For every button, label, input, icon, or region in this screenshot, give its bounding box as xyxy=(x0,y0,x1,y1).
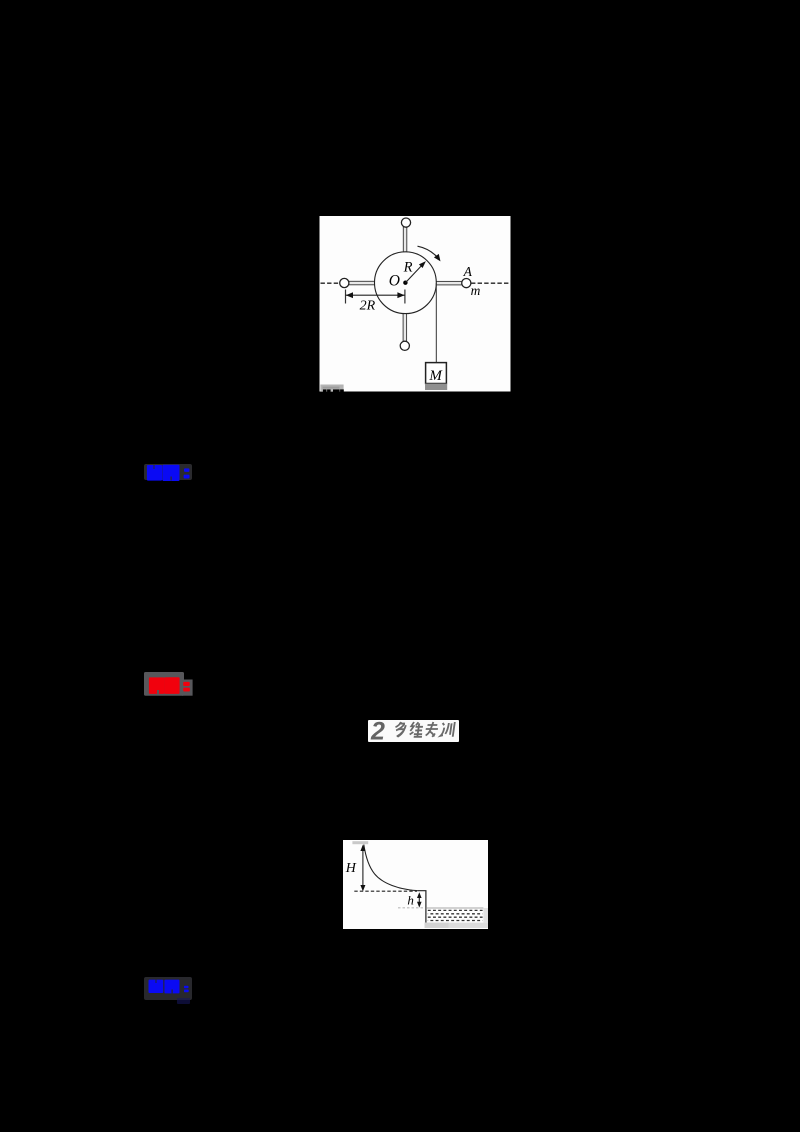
2R dimension right tick xyxy=(404,290,406,304)
2R dimension left tick xyxy=(345,290,347,304)
svg-text:R: R xyxy=(403,260,413,276)
ledge and cliff wall xyxy=(417,890,425,922)
faint dark-blue smudge under tag 3 xyxy=(177,998,191,1004)
water surface line xyxy=(425,907,483,909)
bottom rod xyxy=(403,313,407,342)
central disc xyxy=(375,252,437,314)
right rod xyxy=(434,281,462,285)
tag 3: blue label (解析:) on dark chip xyxy=(144,977,193,1001)
center dot O xyxy=(403,281,407,285)
slide curve xyxy=(363,844,417,890)
bottom ball xyxy=(400,341,409,350)
section header: 2 多维专训 xyxy=(368,720,460,742)
figure 1: rotating cross with masses and hanging block M xyxy=(319,216,511,392)
string to block M xyxy=(435,283,437,363)
figure 2 white panel xyxy=(343,840,488,929)
gray base slab under M xyxy=(425,384,447,390)
svg-text:m: m xyxy=(471,283,481,298)
tag 1: blue label (解析:) on dark chip xyxy=(144,464,192,481)
glyph 训 xyxy=(440,722,454,737)
H double arrow xyxy=(361,846,363,889)
right ball A xyxy=(462,279,471,288)
cropped caption marks xyxy=(323,389,327,392)
svg-text:H: H xyxy=(344,861,356,876)
dashed axis right segment xyxy=(471,282,510,284)
glyph 多 xyxy=(394,722,406,737)
svg-text:2R: 2R xyxy=(360,299,376,314)
figure 2: slide with height H, ledge h and water pool xyxy=(343,840,488,929)
left ball xyxy=(340,278,349,287)
radius arrow R xyxy=(405,263,423,282)
glyph 专 xyxy=(424,722,438,737)
svg-text:M: M xyxy=(428,368,443,384)
rotation direction arc arrow xyxy=(418,246,439,258)
bottom gray strip xyxy=(424,922,488,927)
h double arrow xyxy=(418,894,420,905)
dashed base line xyxy=(354,890,417,892)
top ball xyxy=(401,218,410,227)
2R dimension arrow line xyxy=(346,294,405,296)
tag 2: red label (答案:) on gray chip xyxy=(144,672,193,696)
water hatch rows xyxy=(427,909,482,911)
glyph 维 xyxy=(409,722,424,737)
left rod xyxy=(349,281,376,285)
faint dotted water-level guide xyxy=(398,906,425,908)
svg-text:A: A xyxy=(463,264,473,279)
block M xyxy=(426,363,447,384)
top rod xyxy=(403,227,407,254)
svg-text:h: h xyxy=(407,892,414,907)
top gray patch xyxy=(352,841,368,844)
dashed axis left segment xyxy=(321,282,341,284)
bottom-left gray caption patch xyxy=(320,385,343,391)
right gray column xyxy=(483,908,488,923)
figure 1 white panel xyxy=(320,215,511,392)
svg-text:2: 2 xyxy=(370,720,385,742)
svg-text:O: O xyxy=(389,273,400,290)
